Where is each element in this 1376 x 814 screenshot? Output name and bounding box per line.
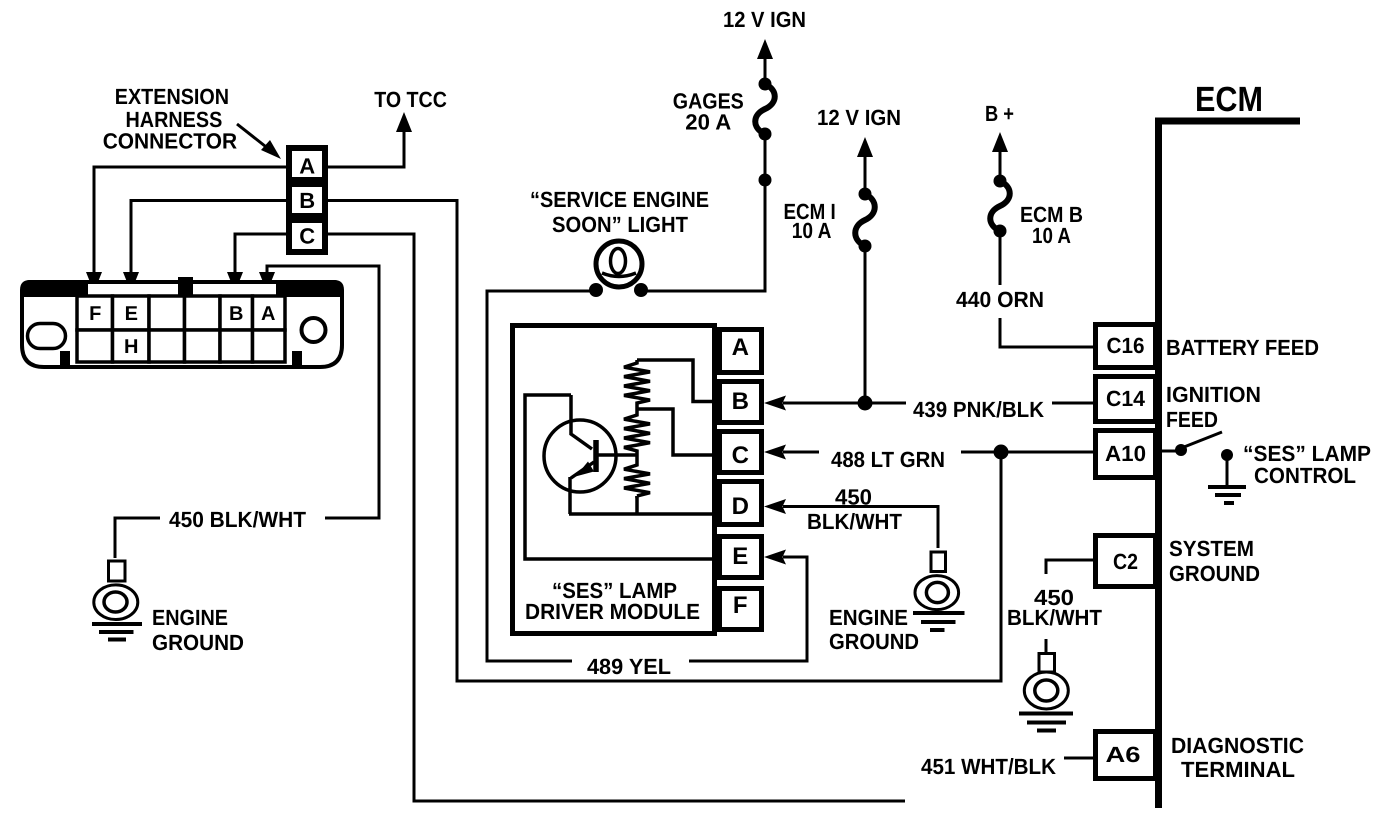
svg-text:A: A [299, 154, 315, 179]
svg-text:A: A [261, 303, 275, 325]
svg-text:D: D [732, 493, 749, 520]
svg-text:C2: C2 [1113, 549, 1138, 574]
svg-text:CONNECTOR: CONNECTOR [103, 129, 237, 154]
svg-text:A: A [732, 334, 749, 361]
svg-text:C: C [732, 442, 749, 469]
svg-text:SYSTEM: SYSTEM [1169, 536, 1254, 561]
svg-text:C16: C16 [1107, 333, 1145, 358]
svg-text:SOON” LIGHT: SOON” LIGHT [552, 212, 689, 237]
svg-text:10 A: 10 A [792, 218, 832, 243]
svg-text:CONTROL: CONTROL [1254, 463, 1356, 488]
svg-text:10 A: 10 A [1032, 223, 1071, 248]
svg-text:TERMINAL: TERMINAL [1181, 757, 1295, 782]
svg-text:DIAGNOSTIC: DIAGNOSTIC [1171, 733, 1304, 758]
svg-text:12 V IGN: 12 V IGN [817, 105, 901, 130]
svg-text:ENGINE: ENGINE [152, 605, 228, 630]
svg-text:BLK/WHT: BLK/WHT [807, 509, 903, 534]
svg-text:GROUND: GROUND [1169, 561, 1260, 586]
svg-text:488 LT GRN: 488 LT GRN [831, 447, 945, 472]
svg-text:FEED: FEED [1166, 407, 1218, 432]
svg-text:451 WHT/BLK: 451 WHT/BLK [921, 754, 1056, 779]
svg-text:489 YEL: 489 YEL [587, 654, 671, 679]
svg-text:GROUND: GROUND [829, 629, 919, 654]
svg-text:DRIVER MODULE: DRIVER MODULE [525, 599, 700, 624]
svg-text:E: E [732, 543, 748, 570]
svg-text:ENGINE: ENGINE [829, 605, 908, 630]
svg-text:450 BLK/WHT: 450 BLK/WHT [169, 507, 307, 532]
svg-text:439 PNK/BLK: 439 PNK/BLK [913, 397, 1044, 422]
svg-text:C14: C14 [1106, 386, 1146, 411]
svg-text:F: F [733, 592, 747, 619]
svg-text:C: C [299, 224, 315, 249]
svg-text:20 A: 20 A [685, 110, 731, 135]
svg-text:EXTENSION: EXTENSION [115, 84, 229, 109]
svg-text:“SERVICE ENGINE: “SERVICE ENGINE [530, 187, 709, 212]
svg-text:ECM: ECM [1195, 80, 1263, 119]
svg-text:440 ORN: 440 ORN [956, 287, 1044, 312]
svg-text:IGNITION: IGNITION [1166, 382, 1261, 407]
svg-text:A6: A6 [1106, 742, 1141, 767]
svg-text:BLK/WHT: BLK/WHT [1007, 605, 1103, 630]
svg-text:B: B [732, 388, 749, 415]
svg-text:12 V IGN: 12 V IGN [723, 7, 806, 32]
svg-text:B: B [229, 303, 243, 325]
svg-text:TO TCC: TO TCC [374, 87, 447, 112]
svg-text:H: H [124, 336, 138, 358]
svg-text:GROUND: GROUND [152, 630, 244, 655]
svg-text:A10: A10 [1105, 441, 1146, 466]
svg-text:B +: B + [985, 101, 1014, 126]
svg-text:B: B [299, 188, 314, 213]
svg-text:E: E [125, 303, 138, 325]
svg-text:450: 450 [835, 485, 872, 510]
svg-text:BATTERY FEED: BATTERY FEED [1166, 335, 1319, 360]
svg-text:F: F [89, 303, 101, 325]
